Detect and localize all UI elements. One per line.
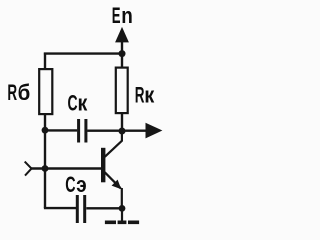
wire bottom rail right of Cэ [86, 207, 122, 209]
junction dot collector [119, 128, 126, 135]
svg-text:к: к [78, 92, 88, 116]
resistor R_b [39, 69, 52, 114]
wire emitter vertical [121, 188, 123, 208]
svg-text:E: E [112, 2, 121, 28]
svg-text:э: э [76, 172, 86, 197]
label Ce [65, 172, 86, 198]
svg-text:R: R [7, 79, 17, 104]
resistor R_k [116, 68, 128, 114]
svg-text:C: C [65, 172, 76, 197]
transistor collector [105, 131, 122, 157]
junction dot input [42, 165, 49, 172]
wire output [122, 129, 146, 131]
label En [112, 2, 133, 28]
wire base [32, 167, 102, 169]
junction dot Ck left [42, 127, 49, 134]
wire Cк right [87, 129, 122, 131]
svg-text:б: б [18, 80, 31, 105]
wire Rк top [121, 54, 123, 68]
wire En arrow stem [121, 40, 123, 54]
ground symbol [105, 221, 139, 225]
wire bottom left to Cэ [44, 207, 76, 209]
wire left vertical top [44, 53, 46, 69]
output arrow [146, 123, 163, 139]
emitter arrowhead [112, 180, 122, 190]
capacitor Ce plates [77, 195, 84, 223]
svg-text:C: C [68, 90, 78, 115]
wire top rail [44, 52, 122, 54]
power arrow En [115, 27, 129, 43]
wire left vertical middle [44, 115, 46, 209]
capacitor Ck plates [79, 119, 86, 143]
label Rk [135, 82, 155, 108]
label Ck [68, 90, 88, 116]
transistor emitter [105, 172, 121, 188]
transistor VT base bar [101, 148, 105, 183]
junction dot top [119, 50, 126, 57]
wire Rк bottom [121, 114, 123, 132]
label Rb [7, 79, 30, 105]
input chevron [25, 162, 32, 176]
wire ground stem [121, 208, 123, 220]
junction dot emitter [119, 205, 126, 212]
svg-text:n: n [121, 4, 133, 29]
wire Cк left [45, 129, 77, 131]
svg-text:к: к [144, 83, 154, 108]
